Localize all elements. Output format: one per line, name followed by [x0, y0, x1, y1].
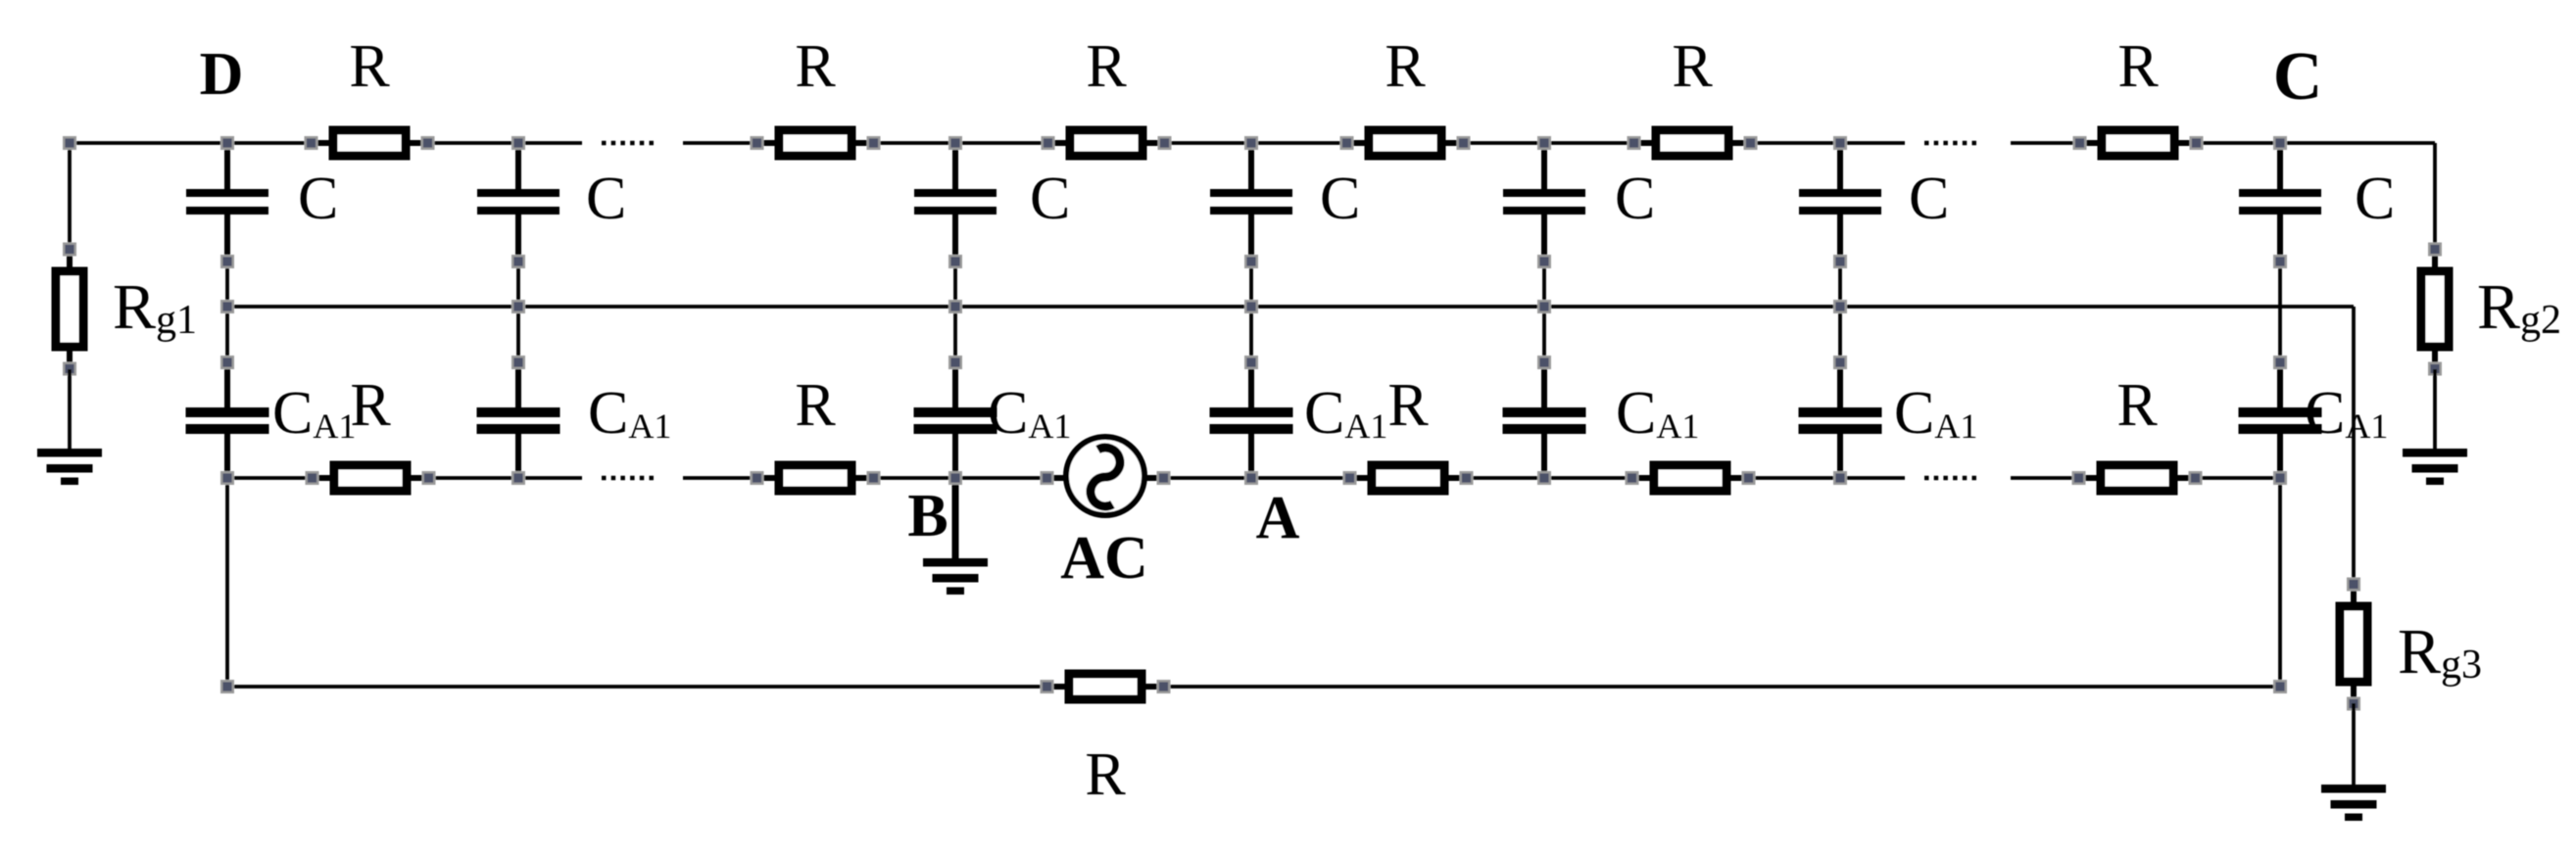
label R (top row 1) [349, 33, 390, 100]
junction top bus column 7 [2274, 137, 2286, 149]
label R (lower row 2) [795, 372, 836, 439]
svg-text:C: C [298, 166, 338, 232]
junction bottom-right corner [2274, 681, 2286, 692]
svg-text:R: R [2116, 372, 2158, 439]
svg-text:R: R [1086, 33, 1127, 100]
capacitor C (column 2) [477, 143, 559, 267]
svg-text:B: B [907, 483, 948, 549]
capacitor C (column 1) [186, 143, 268, 267]
wire top bus segment 1 (node D run) [70, 141, 582, 145]
wire branch 5 connectors [1542, 262, 1546, 362]
label CA1 (column 1) [272, 380, 356, 447]
resistor R (top row 3) [1043, 130, 1171, 156]
capacitor CA1 (column 4) [1210, 357, 1293, 478]
label Rg3 [2398, 616, 2482, 688]
svg-text:C: C [586, 166, 626, 232]
resistor R (top row 1) [306, 130, 434, 156]
resistor R (bottom return) [1042, 674, 1170, 699]
node C [2273, 39, 2323, 115]
junction middle bus column 6 [1834, 301, 1846, 312]
junction middle bus column 1 [221, 301, 233, 312]
resistor R (lower row 3) [1344, 465, 1473, 491]
label CA1 (column 5) [1616, 380, 1699, 447]
svg-text:C: C [1615, 166, 1655, 232]
wire top bus segment 2 [683, 141, 1905, 145]
svg-text:R: R [795, 372, 836, 439]
svg-text:D: D [200, 41, 244, 108]
ground below Rg1 [37, 369, 102, 485]
wire top bus dotted continuation 2 [1924, 141, 1977, 146]
svg-text:R: R [795, 33, 836, 100]
svg-text:C: C [1909, 166, 1949, 232]
resistor Rg1 [56, 244, 83, 375]
label CA1 (column 7) [2305, 380, 2388, 447]
resistor R (lower row 2) [752, 465, 880, 491]
svg-text:R: R [2117, 33, 2159, 100]
junction top bus column 3 [949, 137, 961, 149]
wire bottom return [227, 685, 2280, 689]
capacitor CA1 (column 7) [2239, 357, 2322, 478]
wire top bus dotted continuation 1 [602, 141, 656, 146]
svg-text:C: C [2273, 39, 2323, 115]
wire lower bus dotted continuation 2 [1924, 476, 1977, 481]
resistor R (lower row 4) [1627, 465, 1755, 491]
label C (column 4) [1320, 166, 1360, 232]
wire middle bus [227, 305, 2354, 309]
wire lower bus segment 1 [227, 476, 582, 480]
label CA1 (column 3) [988, 380, 1071, 447]
capacitor C (column 4) [1210, 143, 1292, 267]
wire branch 3 connectors [953, 262, 957, 362]
wire Rg1 top lead [68, 143, 72, 249]
wire branch 4 connectors [1249, 262, 1253, 362]
label C (column 6) [1909, 166, 1949, 232]
svg-text:C: C [1030, 166, 1070, 232]
wire lower bus dotted continuation 1 [602, 476, 656, 481]
junction top-left corner [64, 137, 75, 149]
ground below Rg2 [2403, 369, 2467, 485]
node A [1256, 485, 1300, 551]
svg-text:R: R [1385, 33, 1426, 100]
junction lower bus column 7 [2274, 472, 2286, 484]
label AC [1060, 525, 1148, 592]
junction top bus column 2 [512, 137, 524, 149]
svg-text:AC: AC [1060, 525, 1148, 592]
label C (column 3) [1030, 166, 1070, 232]
junction lower bus column 5 [1538, 472, 1550, 484]
label R (top row 4) [1385, 33, 1426, 100]
wire lower bus segment 2 [683, 476, 1905, 480]
label CA1 (column 6) [1894, 380, 1977, 447]
label R (lower row 3) [1387, 372, 1429, 439]
label R (top row 3) [1086, 33, 1127, 100]
wire right drop (C column to bottom return) [2278, 478, 2282, 687]
label R (lower row 5) [2116, 372, 2158, 439]
capacitor C (column 7) [2239, 143, 2321, 267]
junction middle bus column 5 [1538, 301, 1550, 312]
svg-text:R: R [350, 372, 391, 439]
junction lower bus column 4 [1245, 472, 1257, 484]
label R (lower row 1) [350, 372, 391, 439]
svg-text:A: A [1256, 485, 1300, 551]
resistor Rg2 [2421, 244, 2449, 375]
capacitor CA1 (column 6) [1799, 357, 1882, 478]
junction bottom-left corner [221, 681, 233, 692]
label R (top row 5) [1672, 33, 1713, 100]
svg-text:R: R [1672, 33, 1713, 100]
wire branch 1 connectors [225, 262, 229, 362]
label R (top row 2) [795, 33, 836, 100]
node D [200, 41, 244, 108]
label C (column 2) [586, 166, 626, 232]
capacitor C (column 6) [1799, 143, 1881, 267]
capacitor CA1 (column 1) [186, 357, 269, 478]
label CA1 (column 2) [588, 380, 671, 447]
ground below Rg3 [2321, 703, 2386, 821]
label R (bottom return) [1085, 741, 1126, 808]
resistor R (top row 6) [2074, 130, 2203, 156]
junction middle bus column 3 [949, 301, 961, 312]
junction top bus column 1 [221, 137, 233, 149]
resistor R (lower row 5) [2073, 465, 2202, 491]
label CA1 (column 4) [1304, 380, 1387, 447]
node B [907, 483, 948, 549]
junction lower bus column 1 [221, 472, 233, 484]
AC source [1042, 437, 1170, 515]
junction top bus column 6 [1834, 137, 1846, 149]
resistor R (top row 2) [752, 130, 880, 156]
svg-text:R: R [1387, 372, 1429, 439]
junction middle bus column 2 [512, 301, 524, 312]
capacitor C (column 5) [1503, 143, 1585, 267]
ground at node B [923, 478, 988, 595]
wire branch 6 connectors [1838, 262, 1842, 362]
wire Rg2 top lead [2433, 143, 2437, 249]
label R (top row 6) [2117, 33, 2159, 100]
label C (column 5) [1615, 166, 1655, 232]
capacitor C (column 3) [914, 143, 996, 267]
capacitor CA1 (column 2) [477, 357, 560, 478]
junction lower bus column 2 [512, 472, 524, 484]
capacitor CA1 (column 5) [1503, 357, 1586, 478]
wire branch 7 connectors [2278, 262, 2282, 362]
label C (column 1) [298, 166, 338, 232]
wire branch 2 connectors [516, 262, 520, 362]
wire Rg3 top lead (middle bus drop) [2352, 307, 2356, 585]
wire lower bus segment 3 [2011, 476, 2280, 480]
svg-text:R: R [1085, 741, 1126, 808]
svg-text:C: C [1320, 166, 1360, 232]
svg-text:C: C [2355, 166, 2395, 232]
junction top bus column 5 [1538, 137, 1550, 149]
svg-text:R: R [349, 33, 390, 100]
label Rg2 [2477, 271, 2561, 343]
label Rg1 [113, 271, 197, 343]
resistor Rg3 [2340, 579, 2367, 710]
resistor R (lower row 1) [307, 465, 435, 491]
junction lower bus column 6 [1834, 472, 1846, 484]
junction middle bus column 4 [1245, 301, 1257, 312]
wire top bus segment 3 (to node C) [2011, 141, 2435, 145]
resistor R (top row 4) [1341, 130, 1470, 156]
junction lower bus column 3 [949, 472, 961, 484]
capacitor CA1 (column 3) [914, 357, 997, 478]
wire left drop (D column to bottom return) [225, 478, 229, 687]
junction top bus column 4 [1245, 137, 1257, 149]
resistor R (top row 5) [1628, 130, 1757, 156]
label C (column 7) [2355, 166, 2395, 232]
